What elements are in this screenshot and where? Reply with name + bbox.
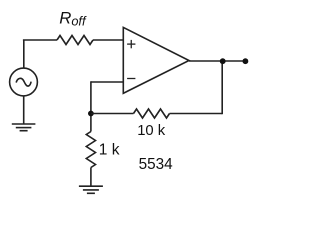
wire top horizontal to resistor	[23, 39, 57, 41]
resistor R1 10 k	[134, 109, 170, 118]
wire feedback horizontal left segment	[91, 113, 134, 115]
resistor R2 1 k (vertical)	[86, 132, 95, 168]
wire inverting node vertical	[90, 81, 92, 131]
svg-text:1 k: 1 k	[99, 142, 120, 159]
svg-text:5534: 5534	[139, 156, 174, 173]
node output junction	[220, 58, 226, 64]
node junction inverting feedback	[88, 111, 94, 117]
wire feedback horizontal right segment	[170, 113, 223, 115]
wire feedback vertical up to output	[221, 61, 223, 114]
op-amp U1 (5534)	[123, 27, 189, 93]
svg-text:10 k: 10 k	[137, 123, 166, 139]
ground (left, below source)	[12, 124, 36, 131]
wire resistor to op-amp non-inverting input	[93, 39, 123, 41]
voltage source V1 (AC sine source)	[10, 68, 38, 96]
wire source top vertical	[23, 40, 25, 68]
wire source bottom vertical to ground	[23, 96, 25, 124]
wire output horizontal	[189, 60, 245, 62]
resistor R_off	[57, 36, 93, 45]
node output terminal	[243, 58, 249, 64]
wire 1 k to ground	[90, 168, 92, 187]
wire inverting input horizontal	[91, 81, 123, 83]
ground (bottom, below 1 k)	[79, 186, 103, 193]
